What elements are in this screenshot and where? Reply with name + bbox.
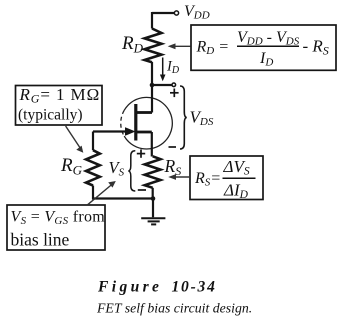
svg-text:10-34: 10-34: [172, 279, 217, 296]
svg-text:bias line: bias line: [11, 230, 70, 250]
svg-text:FET self bias circuit design.: FET self bias circuit design.: [96, 301, 252, 316]
svg-text:(typically): (typically): [18, 107, 83, 124]
svg-text:Figure: Figure: [97, 279, 162, 296]
svg-text:RG= 1 MΩ: RG= 1 MΩ: [19, 85, 101, 106]
